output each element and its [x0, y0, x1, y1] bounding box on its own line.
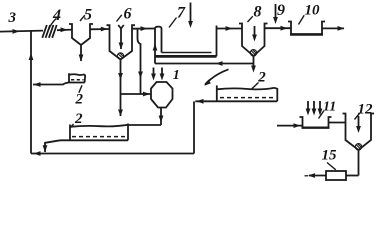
svg-text:1: 1	[173, 68, 180, 83]
svg-text:5: 5	[84, 7, 92, 24]
svg-text:11: 11	[323, 100, 336, 115]
svg-text:12: 12	[358, 102, 374, 118]
svg-text:10: 10	[305, 3, 321, 19]
svg-text:2: 2	[74, 111, 83, 127]
svg-text:8: 8	[254, 4, 262, 21]
svg-text:9: 9	[277, 2, 285, 19]
svg-text:4: 4	[52, 7, 61, 24]
svg-text:3: 3	[8, 10, 17, 26]
svg-text:2: 2	[75, 92, 84, 108]
svg-text:6: 6	[124, 6, 132, 23]
svg-text:7: 7	[177, 5, 186, 22]
svg-text:2: 2	[257, 70, 266, 86]
svg-text:15: 15	[322, 148, 338, 164]
